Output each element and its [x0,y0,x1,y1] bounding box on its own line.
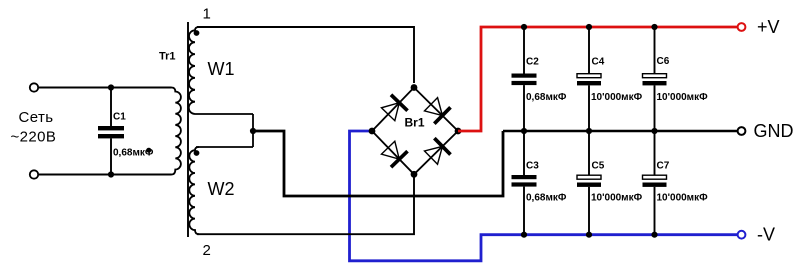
wire W2 top lead [196,146,253,148]
svg-text:2: 2 [203,242,211,259]
terminal input top [30,83,38,91]
transformer core [187,22,189,237]
svg-text:10'000мкФ: 10'000мкФ [657,192,709,203]
phasing dot W2 [194,150,200,156]
junction center tap [250,128,256,134]
phasing dot primary [146,148,151,153]
svg-text:1: 1 [203,6,211,23]
junction +V rail C6 [651,24,657,30]
diode D-topright [423,96,451,124]
terminal GND [738,127,746,135]
junction +V rail C2 [521,24,527,30]
wire pin2 to bridge bottom [197,174,414,234]
svg-text:-V: -V [757,225,775,245]
capacitor C5 [577,131,601,235]
terminal +V [738,23,746,31]
capacitor C3 [512,131,537,235]
junction -V rail C5 [586,232,592,238]
wire GND rail [503,130,737,133]
wire input top [39,87,172,89]
svg-text:GND: GND [754,121,794,141]
svg-text:10'000мкФ: 10'000мкФ [657,92,709,103]
junction -V rail C3 [521,232,527,238]
wire pin1 to bridge top [197,27,414,83]
svg-text:C7: C7 [657,161,670,172]
wire center tap vertical [252,114,254,147]
transformer winding W1 [189,27,199,114]
svg-text:C5: C5 [592,161,605,172]
phasing dot W1 [194,30,200,36]
capacitor C2 [512,27,537,131]
wire center tap to GND detour [253,131,503,196]
svg-text:+V: +V [757,17,780,37]
junction bridge right [455,128,462,135]
junction +V rail C4 [586,24,592,30]
svg-text:C6: C6 [657,56,670,67]
diode D-bottomright [423,138,451,166]
junction -V rail C7 [651,232,657,238]
junction C1 top [108,84,114,90]
svg-text:C1: C1 [113,112,126,123]
junction GND rail C4/C5 [586,128,592,134]
junction bridge bottom [411,171,418,178]
svg-text:0,68мкФ: 0,68мкФ [526,92,567,103]
junction bridge top [411,84,418,91]
svg-text:C2: C2 [526,57,539,68]
wire W1 bottom lead [195,113,253,115]
svg-text:Tr1: Tr1 [159,51,176,63]
svg-text:Сеть: Сеть [19,109,54,126]
junction C1 bottom [108,171,114,177]
junction bridge left [369,128,376,135]
svg-text:W1: W1 [208,59,235,79]
capacitor C1 [98,88,124,175]
junction GND rail C2/C3 [521,128,527,134]
diode D-topleft [380,95,408,122]
svg-text:C3: C3 [526,161,539,172]
transformer winding W2 [189,147,199,234]
transformer Tr1 primary winding [172,88,181,175]
terminal input bottom [30,170,38,178]
svg-text:C4: C4 [592,57,605,68]
capacitor C4 [577,27,601,131]
svg-text:10'000мкФ: 10'000мкФ [591,92,643,103]
wire input bottom [39,174,172,176]
junction GND rail C6/C7 [651,128,657,134]
svg-text:10'000мкФ: 10'000мкФ [591,192,643,203]
svg-text:W2: W2 [208,179,235,199]
bridge Br1 diamond wires [372,88,458,175]
terminal -V [738,231,746,239]
diode D-bottomleft [380,140,408,167]
capacitor C7 [643,131,667,235]
svg-text:0,68мкФ: 0,68мкФ [526,192,567,203]
svg-text:Br1: Br1 [405,116,425,130]
svg-text:~220В: ~220В [11,129,57,146]
wire -V blue [350,131,738,261]
capacitor C6 [643,27,667,131]
wire +V red [458,27,737,131]
